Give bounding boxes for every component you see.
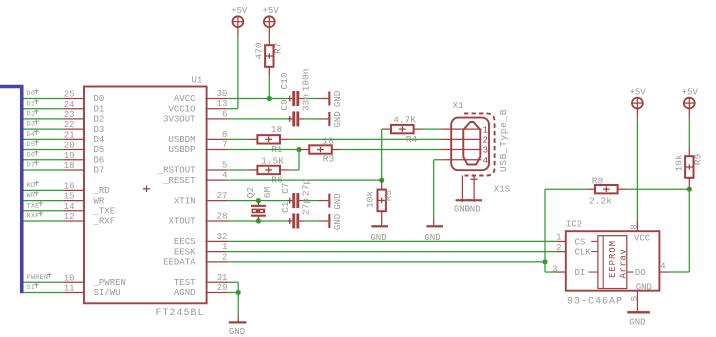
U1 pin number 2 bbox=[222, 252, 227, 262]
svg-text:CS: CS bbox=[575, 237, 586, 247]
svg-text:SI/WU: SI/WU bbox=[94, 288, 121, 298]
U1 pin name USBDP bbox=[168, 145, 195, 155]
U1 pin 1 lead bbox=[206, 251, 227, 253]
svg-text:_RD: _RD bbox=[93, 186, 110, 196]
svg-text:R9: R9 bbox=[693, 154, 704, 166]
svg-text:12: 12 bbox=[64, 212, 75, 222]
svg-text:27: 27 bbox=[217, 191, 228, 201]
IC2 pin 8 VCC bbox=[630, 221, 651, 244]
U1 pin number 30 bbox=[217, 89, 228, 99]
U1 pin name D3 bbox=[94, 125, 105, 135]
wire USBDP left bbox=[227, 149, 299, 151]
svg-text:D1: D1 bbox=[27, 100, 36, 108]
U1 pin name D7 bbox=[94, 166, 105, 176]
U1 pin name 3V3OUT bbox=[163, 115, 196, 125]
svg-text:GND: GND bbox=[636, 283, 652, 293]
svg-text:3: 3 bbox=[483, 146, 488, 156]
resistor R9 10k bbox=[673, 117, 703, 189]
ground GND (IC2) bbox=[627, 301, 650, 328]
svg-text:4: 4 bbox=[222, 171, 227, 181]
U1 pin name D0 bbox=[94, 94, 105, 104]
pin number 11 bbox=[64, 284, 75, 294]
pin 24 lead bbox=[64, 108, 85, 110]
IC2 pin 1 CS bbox=[556, 232, 586, 247]
wire C7 to GND bbox=[304, 200, 318, 202]
svg-text:10: 10 bbox=[64, 273, 75, 283]
svg-text:11: 11 bbox=[64, 284, 75, 294]
U1 pin 30 lead bbox=[206, 98, 227, 100]
wire +5V to VCCIO bbox=[227, 36, 238, 109]
U1 pin name _PWREN bbox=[93, 278, 126, 288]
+5V supply P2 bbox=[262, 6, 279, 36]
label D4 bbox=[27, 130, 39, 139]
pin 15 lead bbox=[64, 200, 85, 202]
U1 pin 28 lead bbox=[206, 220, 227, 222]
wire USBDP right bbox=[340, 149, 442, 151]
svg-text:20: 20 bbox=[64, 141, 75, 151]
U1 pin 6 lead bbox=[206, 118, 227, 120]
connector X1S shield pins bbox=[462, 176, 510, 203]
resistor R5 10k bbox=[365, 180, 395, 225]
pin number 16 bbox=[64, 181, 75, 191]
svg-text:7: 7 bbox=[222, 140, 227, 150]
label D1 bbox=[27, 99, 39, 108]
wire net RESET bbox=[227, 179, 382, 181]
U1 pin name _RESET bbox=[162, 176, 196, 186]
U1 pin name XTOUT bbox=[168, 217, 196, 227]
svg-text:C1: C1 bbox=[280, 201, 291, 213]
wire USBDM left bbox=[227, 138, 249, 140]
svg-text:GND: GND bbox=[333, 193, 343, 209]
svg-text:30: 30 bbox=[217, 89, 228, 99]
U1 pin name EESK bbox=[174, 247, 196, 257]
U1 pin number 28 bbox=[217, 212, 228, 222]
label D7 bbox=[27, 160, 39, 169]
wire R8 row right bbox=[627, 188, 690, 190]
U1 pin number 6 bbox=[222, 109, 227, 119]
pin 21 lead bbox=[64, 138, 85, 140]
pin number 20 bbox=[64, 141, 75, 151]
svg-text:R3: R3 bbox=[323, 153, 335, 164]
U1 pin name XTIN bbox=[174, 196, 196, 206]
svg-text:2.2k: 2.2k bbox=[589, 196, 612, 207]
svg-text:22: 22 bbox=[64, 120, 75, 130]
svg-text:C7: C7 bbox=[280, 182, 291, 193]
label D5 bbox=[27, 140, 39, 149]
svg-text:EEDATA: EEDATA bbox=[163, 258, 196, 268]
ground GND (AGND) bbox=[229, 313, 247, 337]
svg-text:PWREN: PWREN bbox=[27, 274, 49, 282]
label D2 bbox=[27, 109, 39, 118]
capacitor C9 33n bbox=[279, 94, 311, 126]
node junction AVCC/R7 bbox=[267, 96, 272, 101]
U1 pin name D5 bbox=[94, 145, 105, 155]
wire R4 vertical bbox=[381, 129, 383, 180]
svg-text:_RXF: _RXF bbox=[93, 217, 116, 227]
node junction AGND bbox=[236, 290, 241, 295]
ground GND (X1S b) bbox=[464, 199, 482, 214]
svg-text:C9: C9 bbox=[279, 99, 290, 111]
pin number 24 bbox=[64, 100, 75, 110]
wire net AGND bbox=[227, 291, 238, 293]
wire net D3 bbox=[24, 128, 64, 130]
svg-text:29: 29 bbox=[217, 283, 228, 293]
svg-text:93-C46AP: 93-C46AP bbox=[567, 297, 623, 308]
U1 pin name WR bbox=[94, 196, 105, 206]
IC2 pin 5 GND bbox=[630, 283, 652, 302]
svg-text:_RESET: _RESET bbox=[162, 176, 196, 186]
svg-text:23: 23 bbox=[64, 110, 75, 120]
U1 pin 7 lead bbox=[206, 149, 227, 151]
U1 pin name AGND bbox=[174, 288, 196, 298]
wire R6 to USBDP junction bbox=[290, 150, 299, 170]
svg-text:D2: D2 bbox=[94, 115, 105, 125]
U1 pin name TEST bbox=[174, 278, 196, 288]
svg-text:32: 32 bbox=[217, 232, 228, 242]
svg-text:6: 6 bbox=[222, 109, 227, 119]
svg-text:X1S: X1S bbox=[494, 184, 510, 194]
svg-text:D6: D6 bbox=[94, 155, 105, 165]
pin number 12 bbox=[64, 212, 75, 222]
svg-text:2: 2 bbox=[483, 136, 488, 146]
node junction RESET/R4/R5 bbox=[379, 178, 384, 183]
capacitor C7 27p bbox=[280, 179, 312, 208]
svg-text:6M: 6M bbox=[262, 187, 273, 199]
svg-text:FT245BL: FT245BL bbox=[156, 308, 205, 319]
wire C10 to GND bbox=[304, 98, 318, 100]
U1 pin 31 lead bbox=[206, 281, 227, 283]
resistor R4 4.7K bbox=[382, 114, 423, 145]
svg-text:1: 1 bbox=[556, 232, 561, 242]
svg-text:USBDP: USBDP bbox=[168, 145, 195, 155]
U1 pin 2 lead bbox=[206, 261, 227, 263]
svg-text:14: 14 bbox=[64, 202, 75, 212]
U1 pin 8 lead bbox=[206, 138, 227, 140]
svg-text:4: 4 bbox=[483, 156, 488, 166]
svg-text:D5: D5 bbox=[27, 141, 36, 149]
U1 pin number 5 bbox=[222, 160, 227, 170]
wire EEDATA jog to DI bbox=[545, 262, 556, 272]
pin number 21 bbox=[64, 130, 75, 140]
svg-text:10k: 10k bbox=[673, 154, 684, 171]
pin 11 lead bbox=[64, 291, 85, 293]
svg-text:GND: GND bbox=[333, 91, 343, 107]
pin number 15 bbox=[64, 192, 75, 202]
svg-text:1: 1 bbox=[222, 242, 227, 252]
svg-text:EEPROM: EEPROM bbox=[608, 240, 618, 278]
svg-text:R8: R8 bbox=[592, 175, 604, 186]
svg-text:19: 19 bbox=[64, 151, 75, 161]
label WR bbox=[27, 191, 39, 200]
U1 pin number 8 bbox=[222, 130, 227, 140]
+5V supply P3 bbox=[629, 88, 646, 118]
wire net TXE bbox=[24, 210, 64, 212]
svg-text:RXF: RXF bbox=[27, 213, 40, 221]
IC2 designator bbox=[566, 219, 582, 229]
svg-text:4: 4 bbox=[660, 261, 665, 271]
svg-text:SI: SI bbox=[27, 284, 36, 292]
pin number 10 bbox=[64, 273, 75, 283]
wire net D2 bbox=[24, 118, 64, 120]
U1 pin number 32 bbox=[217, 232, 228, 242]
svg-text:18: 18 bbox=[271, 124, 283, 135]
svg-text:13: 13 bbox=[217, 99, 228, 109]
label TXE bbox=[27, 201, 44, 210]
U1 origin cross bbox=[143, 186, 150, 192]
pin 12 lead bbox=[64, 220, 85, 222]
svg-text:VCCIO: VCCIO bbox=[168, 104, 195, 114]
pin number 22 bbox=[64, 120, 75, 130]
U1 pin name _TXE bbox=[93, 206, 116, 216]
U1 pin number 13 bbox=[217, 99, 228, 109]
pin number 19 bbox=[64, 151, 75, 161]
U1 pin name AVCC bbox=[174, 94, 196, 104]
svg-text:470: 470 bbox=[253, 42, 264, 59]
resistor R8 2.2k bbox=[587, 175, 627, 206]
label D0 bbox=[27, 89, 39, 98]
svg-text:18: 18 bbox=[322, 136, 334, 147]
U1 pin name _RD bbox=[93, 186, 110, 196]
resistor R1 18 bbox=[249, 124, 290, 155]
svg-text:D3: D3 bbox=[94, 125, 105, 135]
wire RSTOUT left bbox=[227, 169, 249, 171]
svg-text:USBDM: USBDM bbox=[168, 135, 195, 145]
svg-text:WR: WR bbox=[27, 192, 36, 200]
wire net EESK bbox=[227, 251, 556, 253]
svg-text:R7: R7 bbox=[272, 43, 283, 54]
U1 pin 5 lead bbox=[206, 169, 227, 171]
wire net EECS bbox=[227, 240, 556, 242]
ground GND (R5) bbox=[370, 225, 388, 243]
wire net 3V3OUT bbox=[227, 118, 288, 120]
wire C9 to GND bbox=[304, 118, 318, 120]
svg-text:_TXE: _TXE bbox=[93, 206, 116, 216]
label RD bbox=[27, 181, 39, 190]
resistor R6 1.5K bbox=[249, 155, 290, 185]
node junction XTOUT bbox=[256, 218, 261, 223]
svg-text:+5V: +5V bbox=[231, 6, 248, 16]
op-amp IC2 93-C46AP body bbox=[566, 231, 660, 291]
wire R7 to AVCC bbox=[268, 77, 270, 99]
IC2 pin 3 DI bbox=[552, 264, 585, 278]
svg-text:21: 21 bbox=[64, 130, 75, 140]
svg-text:24: 24 bbox=[64, 100, 75, 110]
svg-text:D1: D1 bbox=[94, 104, 105, 114]
U1 pin 29 lead bbox=[206, 291, 227, 293]
svg-text:D4: D4 bbox=[27, 131, 36, 139]
svg-text:EECS: EECS bbox=[174, 237, 196, 247]
pin 10 lead bbox=[64, 281, 85, 283]
svg-text:2: 2 bbox=[556, 243, 561, 253]
svg-text:D7: D7 bbox=[27, 162, 36, 170]
U1 pin 13 lead bbox=[206, 108, 227, 110]
U1 pin number 31 bbox=[217, 273, 228, 283]
svg-text:AGND: AGND bbox=[174, 288, 196, 298]
pin 23 lead bbox=[64, 118, 85, 120]
bus B1 bbox=[0, 87, 22, 294]
node junction XTIN bbox=[256, 198, 261, 203]
svg-text:D3: D3 bbox=[27, 121, 36, 129]
U1 pin number 7 bbox=[222, 140, 227, 150]
svg-text:16: 16 bbox=[64, 181, 75, 191]
pin 20 lead bbox=[64, 149, 85, 151]
ground GND (USB pin4) bbox=[424, 217, 443, 243]
wire net SI bbox=[24, 291, 64, 293]
U1 pin name D4 bbox=[94, 135, 105, 145]
wire net PWREN bbox=[24, 281, 64, 283]
U1 pin name D6 bbox=[94, 155, 105, 165]
wire EEDATA up to R8 bbox=[544, 189, 546, 262]
ground GND (C7) bbox=[318, 193, 343, 209]
resistor R7 470 bbox=[253, 36, 283, 77]
svg-text:25: 25 bbox=[64, 90, 75, 100]
svg-text:TXE: TXE bbox=[27, 202, 40, 210]
svg-text:RD: RD bbox=[27, 182, 36, 190]
U1 designator bbox=[192, 75, 203, 85]
svg-text:C10: C10 bbox=[279, 72, 290, 89]
ground GND (C9) bbox=[318, 111, 343, 127]
wire net D1 bbox=[24, 108, 64, 110]
U1 pin name D2 bbox=[94, 115, 105, 125]
svg-text:IC2: IC2 bbox=[566, 219, 582, 229]
U1 pin name _RXF bbox=[93, 217, 116, 227]
svg-text:D0: D0 bbox=[94, 94, 105, 104]
wire DO vertical bbox=[670, 189, 690, 272]
U1 pin 32 lead bbox=[206, 240, 227, 242]
svg-text:27p: 27p bbox=[301, 198, 312, 215]
wire net XTOUT bbox=[227, 220, 288, 222]
svg-text:X1: X1 bbox=[453, 101, 464, 111]
svg-text:15: 15 bbox=[64, 192, 75, 202]
U1 pin name EEDATA bbox=[163, 258, 196, 268]
svg-text:3: 3 bbox=[552, 264, 557, 274]
svg-text:1.5K: 1.5K bbox=[261, 155, 284, 166]
pin 16 lead bbox=[64, 189, 85, 191]
svg-text:XTIN: XTIN bbox=[174, 196, 196, 206]
svg-text:8: 8 bbox=[630, 224, 640, 229]
svg-text:U1: U1 bbox=[192, 75, 203, 85]
pin 25 lead bbox=[64, 98, 85, 100]
U1 pin name SI/WU bbox=[94, 288, 121, 298]
svg-text:TEST: TEST bbox=[174, 278, 196, 288]
svg-text:_PWREN: _PWREN bbox=[93, 278, 126, 288]
svg-text:EESK: EESK bbox=[174, 247, 196, 257]
U1 pin name VCCIO bbox=[168, 104, 195, 114]
IC2 value 93-C46AP bbox=[567, 297, 623, 308]
ground GND (C1) bbox=[318, 214, 343, 230]
U1 pin name _RSTOUT bbox=[157, 166, 196, 176]
resistor R3 18 bbox=[299, 136, 340, 165]
svg-text:D0: D0 bbox=[27, 90, 36, 98]
label RXF bbox=[27, 211, 44, 220]
wire net WR bbox=[24, 200, 64, 202]
svg-text:D2: D2 bbox=[27, 111, 36, 119]
U1 pin 4 lead bbox=[206, 179, 227, 181]
svg-text:+5V: +5V bbox=[682, 88, 699, 98]
capacitor C10 100n bbox=[279, 69, 311, 106]
label SI bbox=[27, 283, 39, 292]
svg-text:WR: WR bbox=[94, 196, 105, 206]
wire USBDM right bbox=[290, 138, 442, 140]
U1 pin number 27 bbox=[217, 191, 228, 201]
svg-text:18: 18 bbox=[64, 161, 75, 171]
U1 pin number 4 bbox=[222, 171, 227, 181]
svg-text:100n: 100n bbox=[300, 69, 311, 92]
pin number 25 bbox=[64, 90, 75, 100]
U1 pin name USBDM bbox=[168, 135, 195, 145]
svg-text:+5V: +5V bbox=[262, 6, 279, 16]
svg-text:1: 1 bbox=[483, 125, 488, 135]
ground GND (C10) bbox=[318, 91, 343, 107]
svg-text:2: 2 bbox=[222, 252, 227, 262]
wire AGND down bbox=[237, 292, 239, 313]
crystal Q2 6M bbox=[245, 187, 273, 221]
svg-text:GND: GND bbox=[333, 111, 343, 127]
svg-text:D7: D7 bbox=[94, 166, 105, 176]
svg-text:USB_Type_B: USB_Type_B bbox=[498, 109, 509, 172]
svg-text:5: 5 bbox=[222, 160, 227, 170]
wire C1 to GND bbox=[304, 220, 318, 222]
svg-text:DI: DI bbox=[575, 268, 586, 278]
wire net EEDATA bbox=[227, 261, 545, 263]
IC2 pin 4 DO bbox=[635, 261, 670, 278]
wire net AVCC bbox=[227, 98, 288, 100]
U1 pin name EECS bbox=[174, 237, 196, 247]
svg-text:D6: D6 bbox=[27, 151, 36, 159]
svg-text:DO: DO bbox=[635, 268, 646, 278]
svg-text:_RSTOUT: _RSTOUT bbox=[157, 166, 196, 176]
svg-text:5: 5 bbox=[630, 296, 640, 301]
pin number 23 bbox=[64, 110, 75, 120]
pin number 18 bbox=[64, 161, 75, 171]
IC2 pin 2 CLK bbox=[556, 243, 592, 258]
svg-text:XTOUT: XTOUT bbox=[168, 217, 196, 227]
pin number 14 bbox=[64, 202, 75, 212]
ground GND (X1S a) bbox=[454, 199, 471, 214]
pin 19 lead bbox=[64, 159, 85, 161]
svg-text:31: 31 bbox=[217, 273, 228, 283]
svg-text:8: 8 bbox=[222, 130, 227, 140]
pin 14 lead bbox=[64, 210, 85, 212]
U1 pin number 1 bbox=[222, 242, 227, 252]
wire net XTIN bbox=[227, 200, 288, 202]
pin 22 lead bbox=[64, 128, 85, 130]
svg-text:AVCC: AVCC bbox=[174, 94, 196, 104]
svg-text:Array: Array bbox=[618, 248, 628, 278]
svg-text:GND: GND bbox=[629, 318, 645, 328]
svg-text:27p: 27p bbox=[301, 179, 312, 196]
svg-text:VCC: VCC bbox=[634, 234, 651, 244]
label D6 bbox=[27, 150, 39, 159]
label D3 bbox=[27, 120, 39, 129]
wire USB pin4 to GND bbox=[434, 160, 442, 218]
svg-text:GND: GND bbox=[229, 327, 245, 337]
U1 pin 27 lead bbox=[206, 200, 227, 202]
label PWREN bbox=[27, 273, 52, 282]
wire +5V to IC2 VCC bbox=[636, 117, 638, 221]
svg-text:CLK: CLK bbox=[575, 248, 592, 258]
svg-text:Q2: Q2 bbox=[245, 187, 256, 199]
wire R8 row left bbox=[545, 188, 587, 190]
U1 pin name D1 bbox=[94, 104, 105, 114]
+5V supply P4 bbox=[682, 88, 699, 118]
svg-text:D4: D4 bbox=[94, 135, 105, 145]
node junction USBDP/R3/R6 bbox=[296, 147, 301, 152]
svg-text:R4: R4 bbox=[406, 134, 418, 145]
wire net RD bbox=[24, 189, 64, 191]
wire net D4 bbox=[24, 138, 64, 140]
svg-text:D5: D5 bbox=[94, 145, 105, 155]
